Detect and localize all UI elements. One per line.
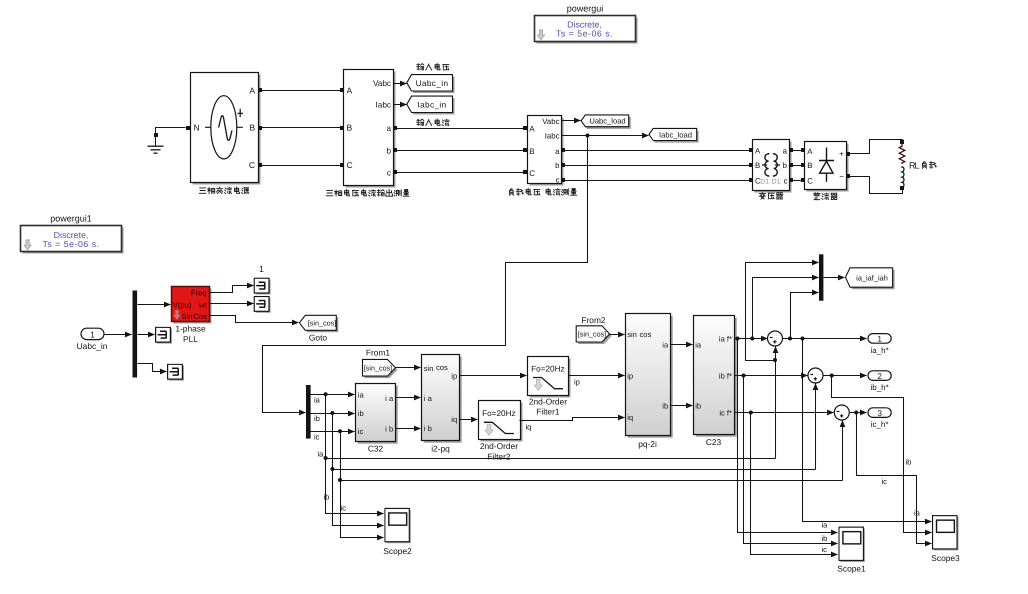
- svg-text:Ts = 5e-06 s.: Ts = 5e-06 s.: [556, 28, 613, 38]
- svg-text:2nd-Order: 2nd-Order: [529, 396, 567, 406]
- 2nd-order filter1 block: [528, 357, 571, 417]
- wire C23 ia f* to sum1: [735, 337, 768, 341]
- svg-text:wt: wt: [198, 301, 207, 310]
- svg-text:+: +: [839, 150, 844, 159]
- pq-2i block: [626, 314, 673, 449]
- wire branch iaf to mux in2: [753, 278, 819, 339]
- wire load a to transformer A: [561, 148, 753, 152]
- goto tag Uabc_load: [581, 115, 631, 129]
- goto tag Uabc_in: [407, 75, 455, 93]
- svg-text:cos: cos: [640, 330, 652, 339]
- svg-text:1: 1: [877, 335, 882, 344]
- svg-text:ib: ib: [822, 534, 828, 543]
- label: load V-I measurement: [509, 188, 576, 195]
- wire ib_h* branch to Scope3 in2: [832, 376, 932, 533]
- svg-text:C23: C23: [706, 437, 722, 447]
- svg-text:ip: ip: [574, 377, 580, 386]
- label: RL load: [909, 161, 936, 171]
- From1 tag sin_cos: [363, 347, 398, 378]
- svg-text:Fo=20Hz: Fo=20Hz: [482, 409, 515, 418]
- wire PLL Sin_Cos to Goto sin_cos: [209, 316, 299, 323]
- svg-text:a: a: [386, 124, 391, 133]
- output port 1 ia_h*: [868, 334, 891, 355]
- ground symbol: [148, 128, 186, 154]
- wire demux2 ia to C32: [311, 392, 355, 396]
- svg-text:powergui: powergui: [567, 4, 604, 14]
- demux2 bar: [306, 385, 311, 439]
- svg-text:ic: ic: [882, 477, 888, 486]
- svg-text:Filter1: Filter1: [536, 407, 560, 417]
- svg-text:[sin_cos]: [sin_cos]: [308, 319, 336, 328]
- svg-text:b: b: [783, 161, 788, 170]
- svg-text:ic: ic: [358, 427, 364, 436]
- wire transformer b to rectifier B: [789, 163, 805, 167]
- svg-text:c: c: [784, 176, 788, 185]
- demux bar (PLL input): [133, 291, 138, 378]
- svg-text:D1: D1: [760, 178, 769, 185]
- label: three-phase V-I output measurement: [326, 189, 409, 196]
- svg-text:ia f*: ia f*: [719, 335, 732, 344]
- svg-text:Scope1: Scope1: [837, 564, 866, 574]
- svg-text:B: B: [529, 147, 534, 156]
- input port 1 Uabc_in: [77, 328, 108, 351]
- wire ib bus to sum2 plus input: [815, 384, 817, 470]
- svg-text:2nd-Order: 2nd-Order: [480, 441, 518, 451]
- svg-text:pq-2i: pq-2i: [638, 439, 657, 449]
- wire sum1 out to out port ia_h*: [783, 337, 867, 341]
- svg-text:i2-pq: i2-pq: [431, 444, 450, 454]
- powergui block: [535, 4, 638, 44]
- svg-text:A: A: [807, 147, 813, 156]
- ib bus line: [330, 414, 815, 472]
- svg-text:Fo=20Hz: Fo=20Hz: [531, 364, 564, 373]
- svg-text:Ts = 5e-06 s.: Ts = 5e-06 s.: [42, 239, 99, 249]
- wire b: measure1 to load measure: [393, 148, 527, 152]
- wire demux2 ic to C32: [311, 429, 355, 433]
- wire Uabc_in to demux: [105, 334, 132, 336]
- svg-text:ib: ib: [324, 493, 330, 502]
- svg-text:A: A: [529, 124, 535, 133]
- wire PLL wt to terminator2: [209, 303, 254, 305]
- svg-text:B: B: [807, 161, 812, 170]
- svg-text:Iabc: Iabc: [376, 101, 391, 110]
- svg-text:1-phase: 1-phase: [175, 324, 206, 334]
- svg-text:Filter2: Filter2: [487, 451, 511, 461]
- svg-text:ic: ic: [822, 545, 828, 554]
- svg-text:ic: ic: [341, 504, 347, 513]
- svg-text:ia: ia: [318, 449, 325, 458]
- wire From1 to i2-pq: [396, 367, 421, 369]
- svg-text:A: A: [755, 147, 761, 156]
- wire ic f* branch to Scope1 in3: [751, 413, 838, 555]
- svg-text:sin: sin: [424, 364, 434, 373]
- svg-text:ib_h*: ib_h*: [870, 383, 888, 392]
- svg-text:ib: ib: [906, 458, 912, 467]
- wire pq-2i ib to C23: [671, 405, 693, 407]
- svg-text:Uabc_in: Uabc_in: [416, 79, 449, 88]
- svg-text:L: L: [915, 161, 920, 171]
- terminator (low): [168, 364, 184, 380]
- svg-text:A: A: [249, 86, 255, 96]
- svg-text:ip: ip: [627, 372, 633, 381]
- mux bar ia_iaf_iah: [819, 254, 823, 300]
- svg-text:ia: ia: [662, 341, 669, 350]
- terminator2: [254, 297, 270, 313]
- wire PLL Freq to terminator1: [209, 286, 254, 293]
- svg-text:a: a: [783, 147, 788, 156]
- ia bus line: [324, 395, 776, 461]
- wire C23 ib f* to sum2: [735, 374, 808, 378]
- wire demux out2 to terminator mid: [138, 334, 155, 336]
- svg-text:Sin: Sin: [182, 312, 193, 321]
- svg-text:Vabc: Vabc: [542, 117, 559, 126]
- C23 block: [694, 316, 737, 447]
- wire branch to mux in1: [746, 263, 819, 361]
- labels ia ib ic at Scope1: [822, 521, 829, 555]
- svg-text:ia: ia: [914, 509, 921, 518]
- svg-text:ip: ip: [451, 372, 457, 381]
- goto tag Iabc_load: [649, 128, 699, 142]
- svg-text:ib: ib: [314, 414, 320, 423]
- ic bus line: [338, 432, 843, 483]
- svg-text:i b: i b: [424, 424, 432, 433]
- svg-text:ia_h*: ia_h*: [870, 346, 888, 355]
- wire Iabc_load junction to demux2: [263, 136, 588, 413]
- svg-text:ib f*: ib f*: [719, 372, 732, 381]
- wire From2 to pq-2i: [609, 334, 625, 336]
- output port 2 ib_h*: [868, 371, 891, 392]
- svg-text:ia: ia: [358, 390, 365, 399]
- wire rectifier + to RL load: [846, 140, 904, 157]
- svg-text:powergui1: powergui1: [50, 214, 92, 224]
- svg-text:N: N: [194, 123, 200, 133]
- svg-text:1: 1: [90, 329, 95, 339]
- wire C32 ib out to i2-pq: [396, 428, 421, 430]
- wire A: source to measure1: [258, 88, 344, 92]
- svg-text:1: 1: [259, 264, 264, 274]
- wire mux to goto ia_iaf_iah: [824, 277, 845, 279]
- wire transformer c to rectifier C: [789, 178, 805, 182]
- svg-text:Scope3: Scope3: [931, 553, 960, 563]
- wire Iabc to Iabc_load tag: [562, 134, 649, 138]
- svg-text:i a: i a: [424, 394, 433, 403]
- wire ia f* branch to Scope1 in1: [738, 339, 838, 533]
- svg-text:c: c: [556, 176, 560, 185]
- svg-text:Uabc_in: Uabc_in: [77, 341, 108, 351]
- svg-text:sin: sin: [627, 330, 637, 339]
- svg-text:b: b: [555, 161, 560, 170]
- goto tag Iabc_in: [407, 96, 455, 114]
- svg-text:Iabc_in: Iabc_in: [417, 101, 446, 110]
- wire ic_h* branch to Scope3 in3: [857, 413, 932, 544]
- svg-text:3: 3: [877, 409, 882, 418]
- wire to Scope2 in3: [341, 481, 384, 538]
- C32 block: [356, 384, 398, 454]
- wire ic bus to sum3 plus input: [842, 421, 844, 481]
- svg-text:B: B: [347, 123, 353, 133]
- annotation: input current: [417, 119, 450, 126]
- svg-text:C32: C32: [368, 444, 384, 454]
- svg-text:ia: ia: [695, 341, 702, 350]
- svg-text:iq: iq: [526, 422, 532, 431]
- powergui1 block: [21, 214, 124, 254]
- wire demux2 ib to C32: [311, 411, 355, 415]
- svg-text:Cos: Cos: [193, 312, 207, 321]
- svg-text:Goto: Goto: [309, 333, 327, 343]
- load V-I measurement block: [528, 116, 564, 186]
- svg-text:i a: i a: [385, 394, 394, 403]
- wire ib f* branch to Scope1 in2: [744, 376, 838, 544]
- wire C23 ic f* to sum3: [735, 411, 834, 415]
- svg-text:iq: iq: [627, 413, 633, 422]
- wire to Scope2 in1: [326, 459, 384, 514]
- svg-text:ib: ib: [662, 402, 668, 411]
- svg-text:C: C: [807, 176, 813, 185]
- svg-text:From2: From2: [581, 315, 606, 325]
- svg-text:Scope2: Scope2: [383, 546, 412, 556]
- output port 3 ic_h*: [868, 408, 891, 429]
- svg-text:ia: ia: [314, 395, 321, 404]
- wire i2-pq iq to Filter2: [460, 419, 478, 421]
- svg-text:From1: From1: [366, 347, 391, 357]
- wire a: measure1 to load measure: [393, 126, 527, 130]
- wire C: source to measure1: [258, 163, 344, 167]
- wire pq-2i ia to C23: [671, 344, 693, 346]
- svg-text:−: −: [839, 172, 844, 181]
- svg-text:C: C: [529, 169, 535, 178]
- i2-pq block: [422, 355, 462, 454]
- RL load branch: [899, 144, 905, 188]
- svg-text:Vabc: Vabc: [373, 79, 391, 88]
- svg-text:Freq: Freq: [191, 288, 207, 297]
- svg-text:C: C: [347, 160, 353, 170]
- 2nd-order filter2 block: [479, 401, 523, 462]
- svg-text:c: c: [387, 169, 391, 178]
- wire sum2 out to out port ib_h*: [823, 374, 867, 378]
- label: three-phase AC source: [199, 187, 249, 194]
- svg-text:PLL: PLL: [183, 334, 198, 344]
- svg-text:b: b: [386, 147, 391, 156]
- svg-text:[sin_cos]: [sin_cos]: [578, 330, 606, 339]
- svg-text:[sin_cos]: [sin_cos]: [364, 364, 392, 373]
- svg-text:C: C: [249, 160, 255, 170]
- Scope1: [837, 527, 866, 573]
- svg-text:ic: ic: [314, 432, 320, 441]
- wire ia_h* branch to Scope3 in1: [803, 339, 932, 522]
- wire Iabc to Iabc_in tag: [394, 104, 407, 106]
- svg-text:ic_h*: ic_h*: [871, 420, 889, 429]
- svg-text:Iabc_load: Iabc_load: [659, 130, 692, 139]
- terminator1: [254, 278, 270, 294]
- svg-text:A: A: [347, 86, 353, 96]
- svg-text:i b: i b: [385, 425, 393, 434]
- wire Filter1 to pq-2i ip: [569, 375, 625, 377]
- svg-text:2: 2: [877, 372, 882, 381]
- label: rectifier: [814, 193, 837, 200]
- sum circle 1: [768, 331, 783, 346]
- svg-text:ib: ib: [695, 402, 701, 411]
- Scope3: [931, 516, 960, 563]
- svg-text:B: B: [249, 123, 255, 133]
- svg-text:iq: iq: [451, 415, 457, 424]
- three-phase AC source block: [186, 73, 261, 185]
- wire load c to transformer C: [561, 178, 753, 182]
- wire load b to transformer B: [561, 163, 753, 167]
- svg-text:B: B: [755, 161, 760, 170]
- wire demux out3 to terminator low: [138, 364, 167, 372]
- annotation: input voltage: [417, 63, 449, 70]
- wire c: measure1 to load measure: [393, 170, 527, 174]
- svg-text:Uabc_load: Uabc_load: [589, 117, 625, 126]
- svg-text:Iabc: Iabc: [545, 132, 560, 141]
- From2 tag sin_cos: [576, 315, 611, 344]
- wire Filter2 to pq-2i iq: [520, 418, 625, 421]
- svg-text:D1: D1: [772, 178, 781, 185]
- wire to Scope2 in2: [333, 470, 384, 526]
- wire B: source to measure1: [258, 126, 344, 130]
- svg-text:V(pu): V(pu): [173, 301, 192, 310]
- wire sum3 out to out port ic_h*: [850, 411, 867, 415]
- svg-text:ic f*: ic f*: [719, 409, 732, 418]
- svg-text:cos: cos: [436, 363, 448, 372]
- label: transformer: [759, 192, 782, 199]
- goto tag sin_cos: [299, 315, 338, 342]
- three-phase V-I measurement block (measure1): [344, 70, 396, 188]
- rectifier block: [805, 142, 849, 192]
- wire Vabc to Uabc_in tag: [394, 83, 407, 85]
- 1-phase PLL block (red): [172, 287, 212, 324]
- sum circle 3: [834, 405, 849, 420]
- wire ia bus to sum1 plus input: [773, 347, 777, 459]
- terminator (mid): [156, 327, 172, 343]
- svg-text:ib: ib: [358, 409, 364, 418]
- sum circle 2: [808, 368, 823, 383]
- wire Vabc to Uabc_load tag: [562, 120, 581, 122]
- wire rectifier - to RL load: [846, 174, 904, 194]
- label: 1-phase PLL: [175, 324, 206, 344]
- wire transformer a to rectifier A: [789, 148, 805, 152]
- svg-text:ia_iaf_iah: ia_iaf_iah: [856, 273, 888, 282]
- transformer block: [753, 140, 792, 193]
- wire C32 ia out to i2-pq: [396, 397, 421, 399]
- wire branch iah to mux in3: [791, 293, 819, 339]
- svg-text:a: a: [555, 147, 560, 156]
- wire i2-pq ip to Filter1: [460, 375, 527, 377]
- Scope2: [383, 508, 412, 556]
- wire demux out1 to PLL: [138, 304, 171, 306]
- goto tag ia_iaf_iah: [846, 268, 895, 289]
